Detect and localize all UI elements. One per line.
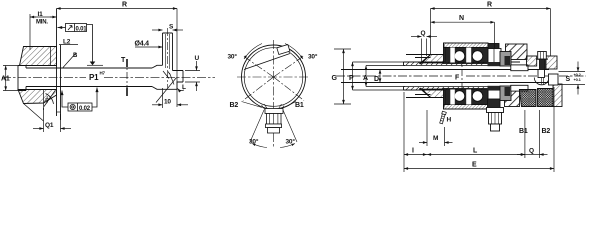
svg-text:MIN.: MIN.: [36, 20, 48, 26]
label dia 4.4: [135, 46, 163, 48]
svg-text:30°: 30°: [249, 138, 259, 146]
screw H callout: [439, 111, 446, 124]
black spacer bottom: [505, 87, 511, 96]
svg-text:30°: 30°: [308, 53, 318, 61]
grease fitting threaded body: [267, 114, 282, 125]
outer circle: [242, 45, 306, 109]
clamp slit: [538, 70, 545, 78]
threaded blocks bottom B1 B2: [519, 84, 562, 107]
shaft body: [26, 68, 152, 87]
30 deg fan and arc: [44, 90, 56, 107]
dimension A1: [3, 66, 18, 91]
sleeve outer: [404, 62, 521, 90]
collet nose cone edge: [24, 90, 44, 122]
dimension E: [404, 87, 554, 172]
label L2: [59, 44, 78, 46]
svg-text:P1: P1: [89, 73, 99, 82]
dimension S (tube): [152, 29, 183, 31]
inner circle: [244, 48, 303, 107]
svg-text:Ø4.4: Ø4.4: [135, 41, 150, 48]
housing left flange bottom: [406, 88, 431, 98]
svg-text:D: D: [374, 76, 379, 83]
angle 30 top-left: [244, 44, 262, 60]
bottom fitting hatch ticks left: [262, 104, 269, 111]
svg-text:0.02: 0.02: [79, 106, 91, 112]
collet top block: [20, 47, 57, 66]
grease fitting collar: [265, 109, 283, 114]
shaft centerline: [2, 76, 215, 78]
shaft A1 end boss: [18, 66, 26, 91]
dimension N: [431, 22, 495, 48]
svg-text:S: S: [566, 76, 571, 83]
end cap slant hatch top: [506, 44, 528, 60]
collet face line / washer: [57, 9, 61, 121]
svg-text:A: A: [363, 75, 368, 82]
washer bottom: [57, 111, 61, 113]
dimension S (right): [559, 62, 586, 95]
svg-text:R: R: [122, 2, 127, 9]
leader B on chamfer: [63, 53, 76, 68]
dimension Q (top): [411, 37, 437, 63]
clamp hatch top right: [546, 56, 557, 69]
svg-text:H7: H7: [100, 71, 106, 76]
svg-text:L: L: [182, 84, 186, 91]
svg-text:B1: B1: [295, 102, 304, 109]
sleeve wall hatch bottom: [406, 87, 484, 90]
svg-text:B2: B2: [230, 102, 239, 109]
label B2 (middle): [242, 102, 263, 108]
housing block left top hatched: [422, 45, 444, 64]
svg-text:Q: Q: [529, 148, 534, 155]
dimension G (middle): [334, 49, 351, 104]
bottom diagonal lines: [250, 110, 297, 142]
diagonal centerline down-left: [243, 77, 274, 101]
dimension 10: [152, 88, 188, 108]
dimension A: [366, 66, 405, 87]
label P1 H7: [89, 71, 106, 83]
svg-text:30°: 30°: [228, 53, 238, 61]
svg-text:M: M: [433, 135, 438, 142]
svg-text:B1: B1: [519, 128, 528, 135]
end cap slant hatch bottom: [505, 88, 520, 107]
svg-text:Q1: Q1: [45, 122, 54, 129]
svg-text:I1: I1: [38, 11, 44, 18]
svg-text:P: P: [349, 75, 354, 82]
housing left flange top: [406, 55, 431, 65]
dimension Q1: [33, 108, 71, 132]
grease fitting below: [487, 99, 504, 131]
grease fitting stub: [268, 128, 280, 133]
horizontal centerline: [237, 76, 310, 78]
bearing cartridge bottom: [444, 89, 489, 110]
collet bottom block: [18, 90, 57, 104]
svg-text:R: R: [487, 2, 492, 9]
svg-text:10: 10: [164, 99, 171, 106]
black spacer: [505, 56, 511, 65]
dimension R (right view): [431, 9, 551, 57]
angle 30-30 bottom arc right: [280, 144, 295, 148]
labels B1 B2 (right view): [519, 128, 550, 135]
shaft end collar: [152, 65, 183, 89]
dimension R (left view): [57, 9, 178, 108]
concentricity frame 0.02: [62, 88, 97, 112]
svg-text:U: U: [195, 55, 200, 62]
svg-text:30°: 30°: [286, 138, 296, 146]
svg-text:H: H: [447, 117, 452, 124]
grease fitting ring: [266, 124, 282, 128]
diagonal centerline up-right: [274, 56, 305, 78]
dimension Q (bottom): [517, 110, 548, 158]
main centerline: [336, 75, 586, 77]
dimension I1 MIN: [30, 14, 57, 50]
datum extension line: [87, 64, 103, 66]
dimension D: [379, 70, 381, 83]
leader L fillet: [156, 78, 184, 103]
retainer ring bottom: [511, 85, 528, 91]
svg-text:Q: Q: [421, 30, 426, 37]
key flat chord: [244, 54, 290, 70]
dimension M: [419, 110, 453, 146]
diagonal centerline up-left: [243, 56, 274, 78]
dimension I: [404, 92, 427, 172]
runout feature control frame 0.01: [58, 24, 93, 62]
angle 30 top-right: [285, 44, 303, 60]
dimension U: [185, 61, 200, 91]
angle 30-30 bottom arc left: [252, 144, 267, 148]
label F: [455, 75, 460, 82]
dimension L: [427, 110, 525, 158]
clamp hatch top left: [527, 56, 537, 66]
diagonal centerline down-right: [274, 77, 305, 101]
drawbar: [341, 70, 549, 83]
svg-text:B2: B2: [542, 128, 551, 135]
grey seal block bottom: [500, 86, 511, 101]
cross tube: [163, 33, 175, 85]
clamp bolt: [536, 52, 548, 70]
pulley nut top: [488, 44, 501, 66]
housing block left bottom hatched: [422, 89, 444, 108]
sleeve bore: [404, 66, 526, 87]
bottom fitting hatch ticks right: [278, 104, 284, 111]
retainer ring top: [511, 65, 528, 71]
drawbar end piece: [534, 74, 558, 85]
section plane T: [126, 59, 128, 96]
svg-text:A1: A1: [1, 76, 10, 83]
grey seal block top: [500, 52, 511, 67]
svg-text:+0.1: +0.1: [574, 77, 582, 82]
inner spacer bars: [488, 62, 502, 90]
svg-text:N: N: [459, 15, 464, 22]
dimension P: [353, 62, 407, 90]
vertical centerline: [273, 40, 275, 147]
tube centerline: [167, 28, 169, 88]
key block: [277, 44, 290, 54]
svg-text:E: E: [472, 162, 477, 169]
svg-text:L2: L2: [63, 39, 71, 46]
bore line F: [461, 56, 463, 96]
label B1 (middle): [284, 102, 296, 108]
svg-text:I: I: [412, 148, 414, 155]
svg-text:0.01: 0.01: [76, 26, 88, 32]
bearing cartridge top: [444, 43, 489, 64]
sleeve wall hatch top: [406, 62, 484, 65]
